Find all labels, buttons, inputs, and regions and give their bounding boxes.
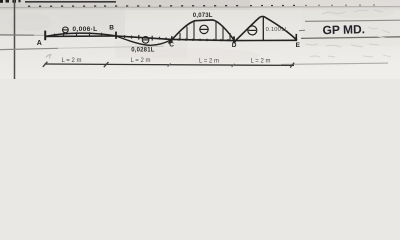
- theta circle 1: [63, 27, 69, 33]
- paper wash mid top: [125, 8, 305, 20]
- deflection curve B-C: [116, 36, 172, 45]
- svg-text:0,0281L: 0,0281L: [131, 48, 155, 54]
- dim tick 3: [168, 63, 171, 66]
- svg-text:L = 2 m: L = 2 m: [131, 58, 151, 64]
- ruled line left lower faint tail: [58, 46, 164, 48]
- theta circle 4: [248, 26, 257, 35]
- svg-text:L = 2 m: L = 2 m: [251, 59, 271, 65]
- theta circle 3: [200, 25, 208, 33]
- arch curve D-E: [234, 16, 298, 42]
- dim tick 5: [290, 63, 294, 68]
- paper wash left margin top: [0, 8, 14, 36]
- pencil scribble top right: [322, 10, 383, 14]
- arch curve C-D: [169, 20, 236, 44]
- ordinate at D-E peak: [262, 17, 264, 40]
- paper wash under dip text: [115, 42, 187, 58]
- margin vertical line: [14, 0, 16, 79]
- pencil dash left of GP MD: [299, 29, 305, 31]
- svg-text:D: D: [232, 42, 237, 49]
- top dark rule: [25, 1, 116, 3]
- svg-text:L = 2 m: L = 2 m: [62, 58, 82, 64]
- pencil scribble right of GP MD: [368, 27, 390, 38]
- pencil scribble bottom right: [310, 55, 391, 57]
- beam chord A-B: [45, 35, 116, 37]
- ruled line right below GP MD: [301, 37, 400, 39]
- paper mottling mid: [60, 11, 120, 25]
- ruled line bottom right faint: [281, 63, 388, 64]
- support B tick: [115, 32, 117, 39]
- dim tick 4: [232, 64, 235, 67]
- svg-text:0,073L: 0,073L: [193, 13, 213, 19]
- ruled line left mid faint tail: [34, 34, 44, 36]
- dimension line: [45, 64, 295, 65]
- ruled line left lower: [0, 48, 58, 49]
- svg-text:E: E: [296, 42, 301, 49]
- deflection curve A-B: [45, 33, 116, 36]
- paper wash right column: [302, 8, 400, 46]
- beam chord D-E: [234, 39, 297, 41]
- svg-text:0.1001L: 0.1001L: [266, 27, 289, 33]
- svg-text:A: A: [37, 40, 42, 47]
- paper mottling bottom middle: [140, 48, 260, 64]
- paper mottling right: [325, 6, 395, 18]
- ruled line right above GP MD: [305, 20, 400, 21]
- ruled line top full width: [0, 7, 400, 8]
- pencil scribble below GP MD: [306, 44, 379, 47]
- paper wash over first span: [15, 9, 125, 36]
- pencil squiggle above first dim tick: [46, 55, 51, 59]
- cut-off text remnants top-left: [0, 0, 21, 3]
- support A tick: [44, 31, 46, 41]
- ruled line left mid: [0, 34, 34, 36]
- hatch ticks C-D: [179, 38, 228, 41]
- svg-text:GP MD.: GP MD.: [322, 22, 365, 37]
- support E tick: [295, 34, 297, 41]
- theta circle 2: [142, 37, 149, 44]
- ruled line top dashes: [28, 5, 295, 7]
- dim tick 2: [104, 62, 109, 67]
- paper mottling left: [8, 13, 52, 31]
- hatch ticks B-C: [125, 35, 167, 41]
- beam chord C-D: [172, 39, 234, 40]
- svg-text:L = 2 m: L = 2 m: [199, 58, 219, 64]
- hatch ticks A-B: [55, 32, 102, 37]
- dim tick 1: [43, 62, 48, 67]
- paper top band right lighter: [250, 0, 400, 10]
- beam chord B-C: [116, 36, 172, 39]
- support C tick: [171, 36, 173, 42]
- ordinates C-D: [180, 21, 230, 40]
- paper background: [0, 0, 400, 79]
- ruled line top dots right: [305, 5, 375, 7]
- paper top gray wash: [0, 0, 400, 10]
- support D tick: [233, 36, 235, 42]
- svg-text:0,006·L: 0,006·L: [72, 26, 97, 33]
- svg-text:B: B: [109, 25, 114, 32]
